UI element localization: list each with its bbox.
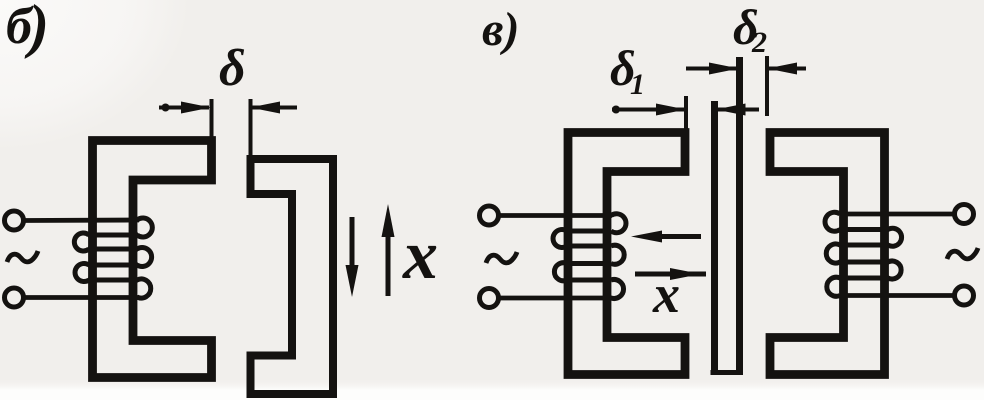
coil terminal bottom	[5, 288, 24, 307]
right coil loops outer side	[888, 228, 902, 279]
delta1 dimension line left with dot	[612, 108, 684, 112]
right coil terminal bottom	[955, 286, 974, 305]
motion arrow down	[350, 217, 355, 270]
coil terminal top	[5, 211, 24, 230]
terminal wire top	[24, 218, 140, 223]
motion arrow right (lower)	[635, 272, 706, 277]
right ac tilde	[947, 248, 978, 259]
coil loops left side	[74, 233, 89, 281]
arrowhead pointing right at gap	[181, 102, 211, 114]
motion arrow up	[386, 232, 391, 296]
central armature plate left line	[711, 101, 718, 371]
svg-text:x: x	[652, 264, 680, 324]
svg-text:1: 1	[630, 68, 645, 101]
left coil rungs	[566, 231, 611, 280]
central armature plate right line	[736, 57, 743, 375]
armature (C-shaped, right, opening left)	[251, 159, 334, 394]
delta2 arrowhead pointing right	[709, 63, 739, 75]
delta1 extension line at left core face	[684, 96, 688, 135]
right core of differential sensor	[770, 133, 885, 375]
dimension extension line at core right face	[210, 99, 214, 140]
right coil loops inner side	[825, 212, 840, 296]
left core of differential sensor	[568, 133, 685, 375]
dimension line left with dot	[159, 106, 209, 110]
svg-text:x: x	[402, 217, 438, 294]
delta2 dimension line left	[686, 67, 736, 71]
right coil terminal top	[955, 205, 974, 224]
terminal wire bottom	[24, 295, 140, 300]
left coil terminal bottom	[480, 289, 499, 308]
left ac tilde	[486, 252, 517, 263]
left coil wire top	[498, 213, 612, 218]
right coil rungs	[839, 230, 889, 279]
arrowhead pointing left at gap	[250, 102, 280, 114]
plate bottom cap	[711, 370, 744, 375]
delta1 arrowhead pointing right	[656, 104, 686, 116]
dimension line right	[251, 106, 297, 110]
delta1 arrowhead pointing left	[716, 104, 746, 116]
left coil wire bottom	[498, 296, 612, 301]
delta1 dimension line right	[717, 108, 759, 112]
motion arrow left (upper)	[659, 234, 701, 239]
right coil wire top	[840, 212, 955, 217]
core (C-shaped magnetic core, left)	[93, 141, 212, 378]
coil loops right side	[137, 218, 152, 298]
dimension extension line at armature left face	[249, 99, 253, 160]
delta2 dimension line right	[769, 67, 806, 71]
delta2 extension line at right core face	[765, 56, 769, 116]
right coil wire bottom	[840, 293, 955, 298]
svg-text:2: 2	[751, 26, 767, 59]
left coil loops inner side	[611, 214, 626, 299]
coil winding rungs	[88, 235, 138, 280]
ac source tilde	[7, 251, 38, 262]
svg-text:δ: δ	[219, 40, 246, 97]
left coil loops outer side	[553, 230, 567, 281]
left coil terminal top	[480, 206, 499, 225]
delta2 arrowhead pointing left	[767, 63, 797, 75]
svg-text:в): в)	[482, 3, 519, 56]
